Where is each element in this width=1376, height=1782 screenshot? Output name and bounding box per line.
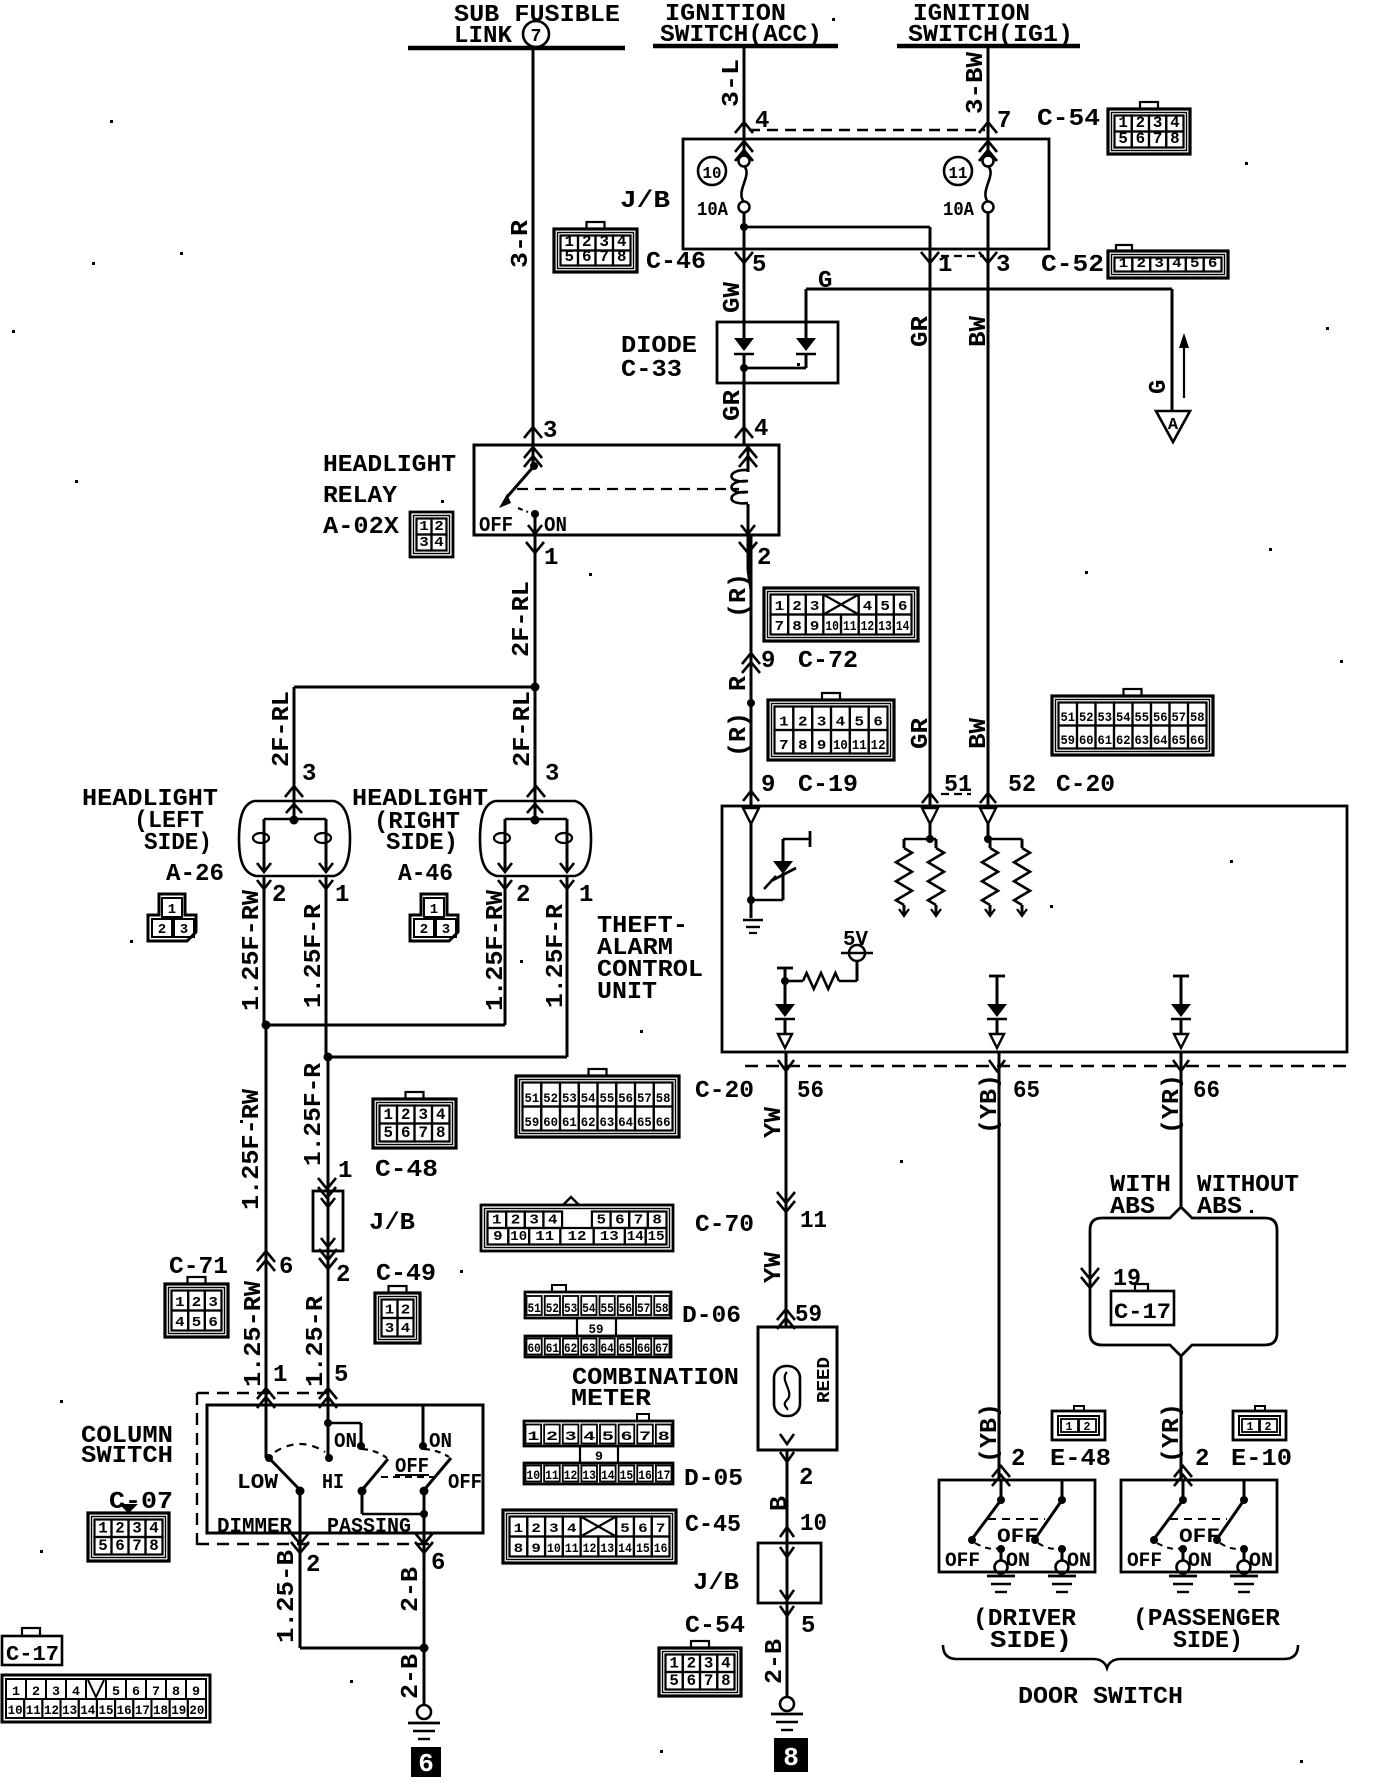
svg-text:PASSING: PASSING — [327, 1516, 411, 1539]
svg-text:A-26: A-26 — [166, 861, 224, 888]
svg-text:C-17: C-17 — [1114, 1300, 1171, 1325]
svg-text:10: 10 — [8, 1704, 23, 1718]
svg-text:3: 3 — [132, 1520, 142, 1538]
svg-text:3: 3 — [52, 1684, 60, 1699]
svg-text:7: 7 — [639, 1429, 651, 1444]
svg-text:YW: YW — [761, 1106, 788, 1138]
svg-text:12: 12 — [871, 738, 886, 754]
svg-text:6: 6 — [620, 1429, 632, 1444]
svg-text:4: 4 — [548, 1214, 558, 1229]
svg-text:5: 5 — [192, 1315, 202, 1331]
svg-text:ON: ON — [1067, 1550, 1091, 1573]
svg-text:9: 9 — [493, 1230, 503, 1245]
svg-text:13: 13 — [600, 1541, 614, 1556]
svg-text:1: 1 — [430, 902, 438, 918]
svg-text:56: 56 — [618, 1092, 633, 1106]
svg-text:ON: ON — [544, 515, 567, 538]
svg-text:6: 6 — [898, 600, 908, 615]
svg-text:OFF: OFF — [448, 1472, 482, 1495]
svg-text:RELAY: RELAY — [323, 483, 398, 510]
svg-text:3: 3 — [442, 922, 450, 938]
svg-text:(YB): (YB) — [977, 1403, 1004, 1463]
svg-text:14: 14 — [627, 1230, 644, 1245]
svg-text:12: 12 — [583, 1541, 597, 1556]
svg-text:12: 12 — [564, 1469, 578, 1483]
svg-text:54: 54 — [581, 1092, 596, 1106]
svg-text:R: R — [726, 675, 753, 691]
svg-text:15: 15 — [636, 1541, 650, 1556]
svg-text:C-70: C-70 — [695, 1212, 754, 1239]
svg-text:BW: BW — [966, 315, 993, 347]
svg-text:54: 54 — [582, 1302, 596, 1316]
svg-text:1.25F-RW: 1.25F-RW — [239, 889, 266, 1011]
svg-text:2: 2 — [192, 1295, 202, 1311]
svg-text:52: 52 — [1079, 711, 1094, 725]
svg-text:SIDE): SIDE) — [144, 830, 212, 857]
svg-text:8: 8 — [149, 1537, 159, 1555]
svg-text:60: 60 — [1079, 734, 1094, 748]
svg-text:61: 61 — [562, 1116, 577, 1130]
svg-text:4: 4 — [149, 1520, 159, 1538]
svg-text:63: 63 — [600, 1116, 615, 1130]
svg-text:14: 14 — [601, 1469, 615, 1483]
svg-text:3: 3 — [1154, 256, 1164, 272]
svg-text:1: 1 — [527, 1429, 539, 1444]
svg-text:8: 8 — [1170, 130, 1180, 148]
svg-text:2: 2 — [420, 922, 428, 938]
svg-text:6: 6 — [1136, 130, 1146, 148]
svg-text:2: 2 — [115, 1520, 125, 1538]
svg-text:4: 4 — [754, 416, 768, 443]
svg-text:4: 4 — [1172, 256, 1182, 272]
svg-text:1: 1 — [544, 545, 558, 572]
svg-text:61: 61 — [546, 1342, 559, 1356]
svg-text:DOOR SWITCH: DOOR SWITCH — [1018, 1684, 1183, 1711]
svg-text:3: 3 — [419, 1106, 429, 1124]
svg-text:5: 5 — [801, 1613, 815, 1640]
svg-text:2-B: 2-B — [398, 1654, 425, 1699]
svg-text:1.25F-RW: 1.25F-RW — [239, 1088, 266, 1210]
svg-text:7: 7 — [132, 1537, 142, 1555]
svg-text:60: 60 — [528, 1342, 541, 1356]
svg-text:4: 4 — [436, 1106, 446, 1124]
svg-text:3: 3 — [419, 535, 429, 551]
svg-text:13: 13 — [878, 620, 892, 635]
svg-text:8: 8 — [658, 1429, 670, 1444]
svg-text:C-54: C-54 — [685, 1613, 745, 1640]
svg-text:53: 53 — [564, 1302, 577, 1316]
svg-text:1: 1 — [175, 1295, 185, 1311]
svg-text:C-17: C-17 — [6, 1644, 59, 1667]
svg-text:4: 4 — [863, 600, 873, 615]
svg-text:7: 7 — [152, 1684, 160, 1699]
svg-text:DIODE: DIODE — [621, 333, 697, 360]
svg-text:8: 8 — [652, 1214, 662, 1229]
svg-text:1: 1 — [1066, 1420, 1073, 1434]
svg-text:6: 6 — [401, 1124, 411, 1142]
svg-text:1.25-B: 1.25-B — [274, 1550, 301, 1643]
svg-text:5: 5 — [602, 1429, 614, 1444]
svg-text:13: 13 — [582, 1469, 596, 1483]
svg-text:14: 14 — [896, 620, 910, 635]
svg-text:6: 6 — [615, 1214, 625, 1229]
svg-text:3: 3 — [996, 252, 1010, 279]
svg-text:1.25-R: 1.25-R — [303, 1295, 330, 1387]
svg-text:6: 6 — [1208, 256, 1218, 272]
svg-text:59: 59 — [1061, 734, 1076, 748]
svg-text:2: 2 — [1195, 1446, 1209, 1473]
svg-text:C-52: C-52 — [1041, 252, 1104, 279]
svg-text:1.25F-R: 1.25F-R — [301, 903, 328, 1008]
svg-text:64: 64 — [618, 1116, 633, 1130]
svg-text:5: 5 — [620, 1521, 630, 1536]
svg-text:GR: GR — [720, 389, 747, 421]
svg-text:REED: REED — [815, 1357, 835, 1403]
svg-text:10: 10 — [547, 1541, 561, 1556]
svg-text:12: 12 — [44, 1704, 59, 1718]
svg-text:6: 6 — [132, 1684, 140, 1699]
svg-text:8: 8 — [172, 1684, 180, 1699]
svg-text:1: 1 — [385, 1303, 395, 1319]
svg-text:C-20: C-20 — [1056, 772, 1115, 799]
svg-text:11: 11 — [26, 1704, 41, 1718]
svg-text:1: 1 — [384, 1106, 394, 1124]
svg-text:5: 5 — [384, 1124, 394, 1142]
svg-text:6: 6 — [431, 1550, 445, 1577]
svg-text:ON: ON — [1249, 1550, 1273, 1573]
svg-text:C-20: C-20 — [695, 1078, 754, 1105]
svg-text:OFF: OFF — [1179, 1526, 1220, 1549]
svg-text:2: 2 — [511, 1214, 521, 1229]
svg-text:16: 16 — [654, 1541, 668, 1556]
svg-text:9: 9 — [817, 738, 827, 754]
svg-text:6: 6 — [873, 715, 883, 731]
svg-text:C-19: C-19 — [798, 772, 858, 799]
svg-text:C-33: C-33 — [621, 357, 682, 384]
svg-text:1: 1 — [12, 1684, 20, 1699]
svg-text:58: 58 — [656, 1092, 671, 1106]
svg-text:1.25F-RW: 1.25F-RW — [483, 889, 510, 1011]
svg-text:3: 3 — [302, 761, 316, 788]
svg-text:7: 7 — [419, 1124, 429, 1142]
svg-text:7: 7 — [779, 738, 789, 754]
svg-text:10: 10 — [833, 738, 848, 754]
svg-text:14: 14 — [80, 1704, 95, 1718]
svg-text:2: 2 — [434, 519, 444, 535]
svg-text:56: 56 — [619, 1302, 632, 1316]
svg-text:65: 65 — [1013, 1078, 1040, 1105]
svg-text:15: 15 — [99, 1704, 114, 1718]
svg-text:11: 11 — [843, 620, 857, 635]
svg-text:(YR): (YR) — [1159, 1403, 1186, 1463]
svg-text:12: 12 — [861, 620, 875, 635]
svg-text:SIDE): SIDE) — [1173, 1628, 1243, 1655]
svg-text:66: 66 — [656, 1116, 671, 1130]
svg-text:2: 2 — [306, 1552, 320, 1579]
svg-text:1: 1 — [1247, 1420, 1254, 1434]
svg-text:5: 5 — [1118, 130, 1128, 148]
svg-text:1: 1 — [273, 1362, 287, 1389]
svg-text:2: 2 — [1084, 1420, 1091, 1434]
svg-text:ON: ON — [1006, 1550, 1030, 1573]
svg-text:A-02X: A-02X — [323, 514, 400, 541]
svg-text:G: G — [1146, 380, 1173, 394]
svg-text:9: 9 — [810, 620, 820, 635]
svg-text:8: 8 — [721, 1672, 731, 1690]
svg-text:C-46: C-46 — [646, 249, 706, 276]
svg-text:10: 10 — [825, 620, 839, 635]
svg-text:ON: ON — [334, 1431, 357, 1454]
svg-text:3: 3 — [545, 761, 559, 788]
svg-text:63: 63 — [582, 1342, 595, 1356]
svg-text:2: 2 — [546, 1429, 558, 1444]
svg-text:10A: 10A — [943, 199, 975, 221]
svg-text:5: 5 — [752, 252, 766, 279]
svg-text:11: 11 — [565, 1541, 579, 1556]
svg-text:1.25F-R: 1.25F-R — [301, 1062, 328, 1166]
svg-text:2: 2 — [336, 1262, 350, 1289]
svg-text:64: 64 — [1153, 734, 1168, 748]
svg-text:9: 9 — [761, 648, 775, 675]
svg-text:A: A — [1168, 416, 1179, 435]
svg-text:E-48: E-48 — [1050, 1446, 1111, 1473]
svg-text:4: 4 — [583, 1429, 595, 1444]
svg-text:1: 1 — [168, 902, 176, 918]
svg-text:1: 1 — [1119, 256, 1129, 272]
svg-text:7: 7 — [531, 27, 542, 47]
svg-text:3: 3 — [529, 1214, 539, 1229]
svg-text:7: 7 — [656, 1521, 666, 1536]
svg-text:18: 18 — [153, 1704, 168, 1718]
svg-text:16: 16 — [117, 1704, 132, 1718]
svg-text:7: 7 — [1153, 130, 1163, 148]
svg-text:11: 11 — [545, 1469, 559, 1483]
svg-text:3-L: 3-L — [719, 59, 746, 107]
svg-text:SIDE): SIDE) — [990, 1628, 1072, 1655]
svg-text:OFF: OFF — [997, 1526, 1038, 1549]
svg-text:8: 8 — [436, 1124, 446, 1142]
svg-text:8: 8 — [514, 1541, 524, 1556]
svg-text:6: 6 — [638, 1521, 648, 1536]
svg-text:57: 57 — [1172, 711, 1187, 725]
svg-text:14: 14 — [618, 1541, 632, 1556]
svg-text:2F-RL: 2F-RL — [510, 691, 537, 767]
svg-text:5: 5 — [669, 1672, 679, 1690]
svg-text:3: 3 — [180, 922, 188, 938]
svg-text:6: 6 — [115, 1537, 125, 1555]
svg-text:51: 51 — [528, 1302, 541, 1316]
svg-text:55: 55 — [1135, 711, 1150, 725]
svg-text:4: 4 — [836, 715, 846, 731]
svg-text:2: 2 — [798, 715, 808, 731]
svg-text:3: 3 — [385, 1321, 395, 1337]
svg-text:2: 2 — [799, 1465, 813, 1492]
svg-text:1: 1 — [98, 1520, 108, 1538]
svg-text:8: 8 — [792, 620, 802, 635]
svg-text:5: 5 — [880, 600, 890, 615]
svg-text:A-46: A-46 — [398, 861, 453, 888]
svg-text:66: 66 — [1193, 1078, 1220, 1105]
svg-text:4: 4 — [401, 1321, 411, 1337]
svg-text:SWITCH: SWITCH — [81, 1443, 173, 1470]
svg-text:65: 65 — [619, 1342, 632, 1356]
svg-text:BW: BW — [966, 717, 993, 749]
svg-text:61: 61 — [1098, 734, 1113, 748]
svg-text:D-05: D-05 — [684, 1466, 743, 1493]
svg-text:6: 6 — [418, 1749, 434, 1779]
svg-text:9: 9 — [192, 1684, 200, 1699]
svg-text:C-48: C-48 — [375, 1157, 438, 1184]
svg-text:1: 1 — [335, 882, 349, 909]
svg-text:55: 55 — [601, 1302, 614, 1316]
svg-text:4: 4 — [72, 1684, 80, 1699]
svg-text:7: 7 — [775, 620, 785, 635]
svg-text:62: 62 — [1116, 734, 1131, 748]
svg-text:2: 2 — [401, 1106, 411, 1124]
svg-text:3: 3 — [543, 418, 557, 445]
svg-text:59: 59 — [795, 1302, 822, 1329]
svg-text:GR: GR — [908, 315, 935, 347]
svg-text:51: 51 — [525, 1092, 540, 1106]
svg-text:51: 51 — [1061, 711, 1076, 725]
svg-text:65: 65 — [637, 1116, 652, 1130]
svg-text:9: 9 — [531, 1541, 541, 1556]
svg-text:GR: GR — [908, 717, 935, 749]
svg-text:J/B: J/B — [369, 1210, 415, 1237]
svg-text:1: 1 — [775, 600, 785, 615]
svg-text:7: 7 — [600, 248, 610, 266]
svg-text:OFF: OFF — [479, 515, 513, 538]
svg-text:64: 64 — [601, 1342, 615, 1356]
svg-text:15: 15 — [620, 1469, 634, 1483]
svg-text:1: 1 — [419, 519, 429, 535]
svg-text:4: 4 — [721, 1655, 731, 1673]
svg-text:8: 8 — [798, 738, 808, 754]
svg-text:19: 19 — [171, 1704, 186, 1718]
svg-text:1: 1 — [779, 715, 789, 731]
svg-text:2: 2 — [401, 1303, 411, 1319]
svg-text:4: 4 — [434, 535, 444, 551]
svg-text:2: 2 — [757, 545, 771, 572]
svg-text:5: 5 — [596, 1214, 606, 1229]
svg-text:11: 11 — [800, 1208, 827, 1235]
svg-text:66: 66 — [637, 1342, 650, 1356]
svg-text:6: 6 — [279, 1254, 293, 1281]
svg-text:OFF: OFF — [945, 1550, 980, 1573]
svg-text:ON: ON — [429, 1431, 452, 1454]
svg-text:17: 17 — [135, 1704, 150, 1718]
svg-text:52: 52 — [546, 1302, 559, 1316]
svg-text:D-06: D-06 — [682, 1303, 741, 1330]
svg-text:19: 19 — [1113, 1266, 1141, 1293]
svg-text:2-B: 2-B — [762, 1639, 789, 1684]
svg-text:UNIT: UNIT — [597, 979, 657, 1006]
svg-text:2: 2 — [792, 600, 802, 615]
svg-text:2F-RL: 2F-RL — [509, 581, 536, 657]
svg-text:DIMMER: DIMMER — [217, 1516, 292, 1539]
svg-text:1: 1 — [579, 882, 593, 909]
svg-text:J/B: J/B — [620, 188, 670, 215]
svg-text:2: 2 — [531, 1521, 541, 1536]
svg-text:1: 1 — [514, 1521, 524, 1536]
svg-text:2: 2 — [1265, 1420, 1272, 1434]
svg-text:HEADLIGHT: HEADLIGHT — [323, 452, 456, 479]
svg-text:3: 3 — [704, 1655, 714, 1673]
svg-text:2: 2 — [1137, 256, 1147, 272]
svg-text:5: 5 — [1190, 256, 1200, 272]
svg-text:3: 3 — [817, 715, 827, 731]
svg-text:11: 11 — [535, 1230, 554, 1245]
svg-text:67: 67 — [655, 1342, 668, 1356]
svg-text:53: 53 — [1098, 711, 1113, 725]
svg-text:LOW: LOW — [237, 1472, 278, 1495]
svg-text:58: 58 — [655, 1302, 668, 1316]
svg-text:4: 4 — [567, 1521, 577, 1536]
svg-text:GW: GW — [720, 281, 747, 313]
svg-text:1.25-RW: 1.25-RW — [241, 1280, 268, 1387]
svg-text:17: 17 — [657, 1469, 671, 1483]
svg-text:1.25F-R: 1.25F-R — [543, 903, 570, 1008]
svg-text:1: 1 — [669, 1655, 679, 1673]
svg-text:7: 7 — [997, 108, 1011, 135]
svg-text:57: 57 — [637, 1092, 652, 1106]
svg-text:5: 5 — [112, 1684, 120, 1699]
svg-text:C-49: C-49 — [376, 1261, 436, 1288]
svg-text:3: 3 — [565, 1429, 577, 1444]
svg-text:56: 56 — [797, 1078, 824, 1105]
svg-text:10: 10 — [703, 164, 722, 183]
svg-text:2-B: 2-B — [398, 1567, 425, 1612]
svg-text:3-BW: 3-BW — [963, 51, 990, 114]
svg-text:4: 4 — [175, 1315, 185, 1331]
svg-text:C-54: C-54 — [1037, 106, 1100, 133]
svg-text:2: 2 — [32, 1684, 40, 1699]
svg-text:10A: 10A — [697, 199, 729, 221]
svg-text:12: 12 — [568, 1230, 587, 1245]
svg-text:5: 5 — [334, 1362, 348, 1389]
svg-text:E-10: E-10 — [1231, 1446, 1292, 1473]
svg-text:55: 55 — [600, 1092, 615, 1106]
svg-text:7: 7 — [634, 1214, 644, 1229]
svg-text:60: 60 — [543, 1116, 558, 1130]
svg-text:C-45: C-45 — [685, 1512, 741, 1539]
svg-text:15: 15 — [648, 1230, 665, 1245]
svg-text:J/B: J/B — [693, 1570, 739, 1597]
svg-text:59: 59 — [525, 1116, 540, 1130]
svg-text:1: 1 — [492, 1214, 502, 1229]
svg-text:3: 3 — [810, 600, 820, 615]
svg-text:11: 11 — [949, 164, 968, 183]
svg-text:10: 10 — [800, 1511, 827, 1538]
svg-text:1: 1 — [338, 1158, 352, 1185]
svg-text:HI: HI — [322, 1472, 344, 1495]
svg-text:3: 3 — [549, 1521, 559, 1536]
svg-text:3-R: 3-R — [508, 219, 535, 268]
svg-text:(R): (R) — [726, 712, 753, 757]
svg-text:9: 9 — [761, 772, 775, 799]
svg-text:62: 62 — [581, 1116, 596, 1130]
svg-text:58: 58 — [1190, 711, 1205, 725]
svg-text:63: 63 — [1135, 734, 1150, 748]
svg-text:3: 3 — [208, 1295, 218, 1311]
svg-text:16: 16 — [638, 1469, 652, 1483]
svg-text:5: 5 — [565, 248, 575, 266]
svg-text:5: 5 — [855, 715, 865, 731]
svg-text:2: 2 — [158, 922, 166, 938]
svg-text:ON: ON — [1188, 1550, 1212, 1573]
svg-text:52: 52 — [543, 1092, 558, 1106]
svg-text:66: 66 — [1190, 734, 1205, 748]
